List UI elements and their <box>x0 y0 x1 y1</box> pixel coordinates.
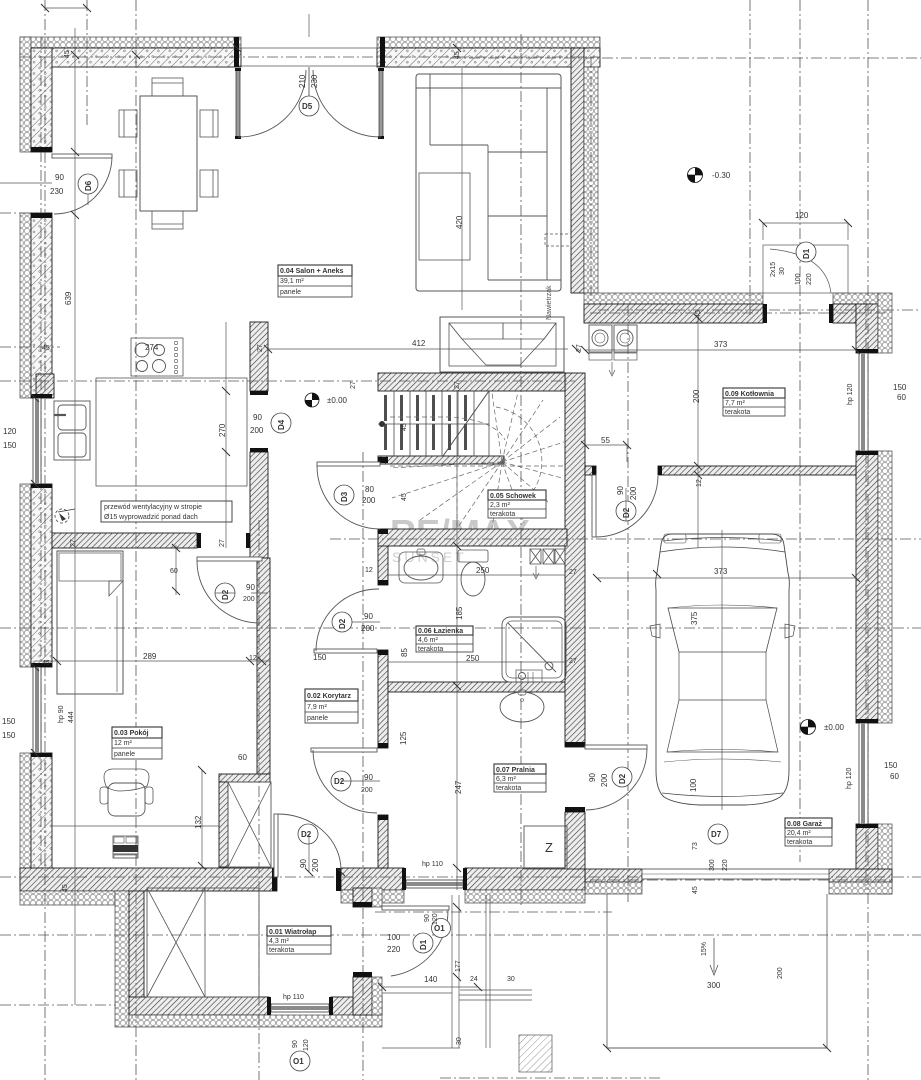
svg-text:terakota: terakota <box>787 839 812 846</box>
svg-text:300: 300 <box>709 859 716 871</box>
svg-text:12: 12 <box>696 479 703 487</box>
svg-text:150: 150 <box>2 731 16 740</box>
svg-text:0.09 Kotłownia: 0.09 Kotłownia <box>725 391 774 398</box>
svg-text:270: 270 <box>218 423 227 437</box>
svg-text:120: 120 <box>3 427 17 436</box>
svg-text:30: 30 <box>456 1037 463 1045</box>
svg-text:200: 200 <box>243 596 255 603</box>
svg-text:27: 27 <box>219 539 226 547</box>
svg-text:0.04 Salon + Aneks: 0.04 Salon + Aneks <box>280 268 343 275</box>
svg-text:D1: D1 <box>802 248 811 259</box>
svg-text:D2: D2 <box>618 773 627 784</box>
svg-text:230: 230 <box>310 74 319 88</box>
svg-text:15%: 15% <box>701 942 708 956</box>
svg-text:0.01 Wiatrołap: 0.01 Wiatrołap <box>269 929 316 936</box>
svg-text:terakota: terakota <box>418 646 443 653</box>
svg-text:185: 185 <box>455 606 464 620</box>
svg-text:200: 200 <box>311 858 320 872</box>
svg-text:terakota: terakota <box>496 785 521 792</box>
svg-text:230: 230 <box>50 187 64 196</box>
svg-text:45: 45 <box>695 310 702 318</box>
svg-text:150: 150 <box>313 653 327 662</box>
svg-text:200: 200 <box>629 486 638 500</box>
svg-text:27: 27 <box>576 344 583 352</box>
svg-text:90: 90 <box>299 859 308 868</box>
svg-text:274: 274 <box>145 343 159 352</box>
svg-text:0.08 Garaż: 0.08 Garaż <box>787 821 823 828</box>
svg-text:2x15: 2x15 <box>770 262 777 277</box>
svg-text:panele: panele <box>280 289 301 296</box>
svg-text:200: 200 <box>361 624 375 633</box>
svg-text:D6: D6 <box>84 180 93 191</box>
svg-text:D5: D5 <box>302 102 313 111</box>
svg-text:D2: D2 <box>221 589 230 600</box>
svg-text:200: 200 <box>692 389 701 403</box>
svg-text:90: 90 <box>246 583 255 592</box>
svg-text:27: 27 <box>569 658 577 665</box>
svg-text:220: 220 <box>806 273 813 285</box>
svg-text:420: 420 <box>455 215 464 229</box>
svg-text:120: 120 <box>432 913 439 925</box>
svg-text:0.06 Łazienka: 0.06 Łazienka <box>418 628 463 635</box>
svg-text:250: 250 <box>466 654 480 663</box>
svg-text:27: 27 <box>569 569 577 576</box>
svg-text:27: 27 <box>70 539 77 547</box>
svg-text:90: 90 <box>616 486 625 495</box>
svg-text:140: 140 <box>424 975 438 984</box>
svg-text:D2: D2 <box>301 830 312 839</box>
svg-text:55: 55 <box>601 436 610 445</box>
svg-text:125: 125 <box>399 731 408 745</box>
svg-text:27: 27 <box>350 381 357 389</box>
svg-text:200: 200 <box>362 496 376 505</box>
svg-text:Ø15 wyprowadzić ponad dach: Ø15 wyprowadzić ponad dach <box>104 514 198 521</box>
svg-text:terakota: terakota <box>269 947 294 954</box>
svg-text:D3: D3 <box>340 491 349 502</box>
svg-text:60: 60 <box>890 772 899 781</box>
svg-text:0.05 Schowek: 0.05 Schowek <box>490 493 536 500</box>
svg-text:30: 30 <box>507 976 515 983</box>
svg-text:27: 27 <box>257 344 264 352</box>
svg-text:hp 110: hp 110 <box>283 994 304 1001</box>
svg-text:D1: D1 <box>419 939 428 950</box>
svg-text:12: 12 <box>365 567 373 574</box>
svg-text:250: 250 <box>476 566 490 575</box>
svg-text:289: 289 <box>143 652 157 661</box>
svg-text:SUNSET: SUNSET <box>392 549 467 565</box>
svg-text:60: 60 <box>897 393 906 402</box>
svg-text:220: 220 <box>387 945 401 954</box>
svg-text:0.07 Pralnia: 0.07 Pralnia <box>496 767 535 774</box>
svg-text:6,3 m²: 6,3 m² <box>496 776 517 783</box>
svg-text:120: 120 <box>303 1039 310 1051</box>
svg-text:45: 45 <box>42 345 50 352</box>
svg-text:Nawietrzak: Nawietrzak <box>546 285 553 320</box>
svg-text:444: 444 <box>68 711 75 723</box>
svg-text:4,3 m²: 4,3 m² <box>269 938 290 945</box>
svg-text:±0.00: ±0.00 <box>327 396 348 405</box>
svg-text:panele: panele <box>114 751 135 758</box>
svg-text:373: 373 <box>714 567 728 576</box>
svg-text:150: 150 <box>3 441 17 450</box>
svg-text:220: 220 <box>722 859 729 871</box>
svg-text:90: 90 <box>253 413 262 422</box>
svg-text:D4: D4 <box>277 419 286 430</box>
svg-text:150: 150 <box>893 383 907 392</box>
svg-text:hp 120: hp 120 <box>847 383 854 405</box>
svg-text:39,1 m²: 39,1 m² <box>280 278 304 285</box>
svg-text:7,7 m²: 7,7 m² <box>725 400 746 407</box>
svg-text:24: 24 <box>470 976 478 983</box>
svg-text:373: 373 <box>714 340 728 349</box>
svg-text:90: 90 <box>364 773 373 782</box>
svg-text:200: 200 <box>250 426 264 435</box>
svg-text:45: 45 <box>692 886 699 894</box>
svg-text:45: 45 <box>454 51 461 59</box>
svg-text:73: 73 <box>692 842 699 850</box>
svg-text:120: 120 <box>795 211 809 220</box>
svg-text:D2: D2 <box>622 507 631 518</box>
svg-text:terakota: terakota <box>725 409 750 416</box>
svg-text:terakota: terakota <box>490 511 515 518</box>
svg-text:±0.00: ±0.00 <box>824 723 845 732</box>
svg-text:D2: D2 <box>334 777 345 786</box>
svg-text:20,4 m²: 20,4 m² <box>787 830 811 837</box>
svg-text:D2: D2 <box>338 618 347 629</box>
svg-text:300: 300 <box>707 981 721 990</box>
svg-text:Z: Z <box>545 840 553 855</box>
svg-text:-0.30: -0.30 <box>712 171 731 180</box>
svg-text:80: 80 <box>365 485 374 494</box>
svg-text:639: 639 <box>64 291 73 305</box>
svg-text:200: 200 <box>600 773 609 787</box>
svg-text:przewód wentylacyjny w stropie: przewód wentylacyjny w stropie <box>104 504 202 511</box>
svg-text:177: 177 <box>455 960 462 972</box>
svg-text:45: 45 <box>42 660 50 667</box>
svg-text:45: 45 <box>401 493 408 501</box>
svg-text:150: 150 <box>884 761 898 770</box>
svg-text:0.03 Pokój: 0.03 Pokój <box>114 730 149 737</box>
svg-text:2,3 m²: 2,3 m² <box>490 502 511 509</box>
svg-text:45: 45 <box>401 423 408 431</box>
svg-text:12: 12 <box>249 655 257 662</box>
svg-text:O1: O1 <box>293 1057 304 1066</box>
svg-text:7,9 m²: 7,9 m² <box>307 704 328 711</box>
svg-text:375: 375 <box>690 611 699 625</box>
svg-text:200: 200 <box>361 787 373 794</box>
svg-text:90: 90 <box>55 173 64 182</box>
svg-text:100: 100 <box>795 273 802 285</box>
svg-text:30: 30 <box>779 267 786 275</box>
svg-text:210: 210 <box>298 74 307 88</box>
svg-text:60: 60 <box>238 753 247 762</box>
svg-text:60: 60 <box>170 568 178 575</box>
svg-text:12 m²: 12 m² <box>114 740 133 747</box>
svg-text:90: 90 <box>364 612 373 621</box>
svg-text:27: 27 <box>454 381 461 389</box>
svg-text:hp 110: hp 110 <box>422 861 443 868</box>
svg-text:85: 85 <box>400 648 409 657</box>
svg-text:247: 247 <box>454 780 463 794</box>
svg-text:90: 90 <box>292 1040 299 1048</box>
svg-text:200: 200 <box>777 967 784 979</box>
svg-text:45: 45 <box>64 50 71 58</box>
svg-text:0.02 Korytarz: 0.02 Korytarz <box>307 693 351 700</box>
svg-text:hp 120: hp 120 <box>846 767 853 789</box>
svg-text:100: 100 <box>387 933 401 942</box>
svg-text:412: 412 <box>412 339 426 348</box>
svg-text:90: 90 <box>424 914 431 922</box>
svg-text:132: 132 <box>194 815 203 829</box>
svg-text:150: 150 <box>2 717 16 726</box>
svg-text:45: 45 <box>62 884 69 892</box>
svg-text:D7: D7 <box>711 830 722 839</box>
svg-text:90: 90 <box>588 773 597 782</box>
svg-text:panele: panele <box>307 715 328 722</box>
svg-text:100: 100 <box>689 778 698 792</box>
svg-text:hp 90: hp 90 <box>58 705 65 723</box>
svg-text:4,6 m²: 4,6 m² <box>418 637 439 644</box>
